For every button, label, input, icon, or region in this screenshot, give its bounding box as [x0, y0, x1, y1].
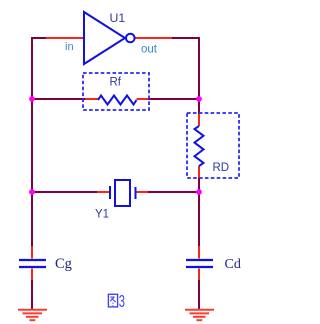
svg-text:Cd: Cd: [225, 257, 241, 272]
svg-text:out: out: [141, 44, 158, 56]
svg-text:3: 3: [119, 293, 125, 312]
svg-text:Rf: Rf: [110, 77, 122, 89]
svg-text:in: in: [65, 41, 74, 53]
svg-text:Y1: Y1: [95, 209, 109, 221]
svg-text:RD: RD: [213, 162, 230, 174]
svg-text:U1: U1: [110, 11, 126, 25]
svg-text:Cg: Cg: [55, 256, 72, 272]
